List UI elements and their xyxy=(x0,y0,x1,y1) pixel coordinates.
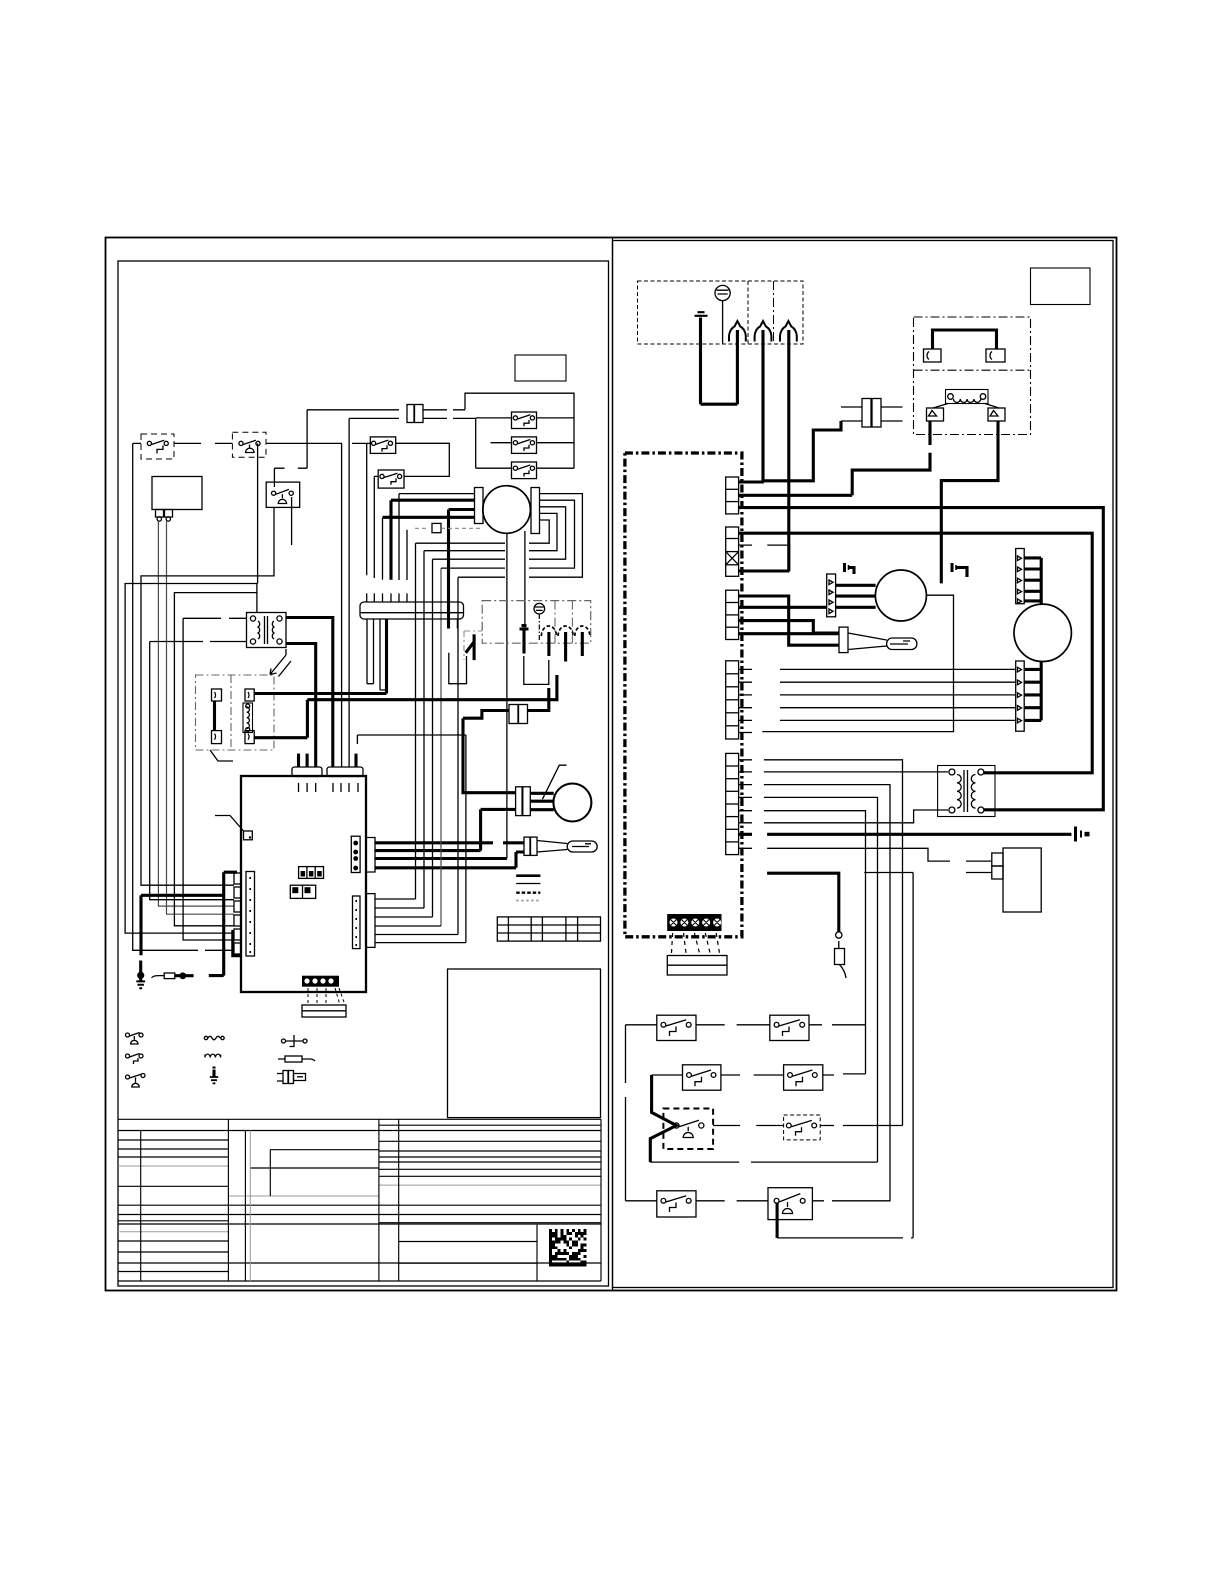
wire rail r3 xyxy=(141,507,274,885)
F right wires to board (bold) xyxy=(254,619,386,738)
chassis tap glyph xyxy=(1076,827,1090,842)
indicator lamp xyxy=(715,285,730,344)
wire rung L1 xyxy=(133,442,371,444)
T1 right wires to board (bold) xyxy=(286,618,333,768)
board top pin stubs xyxy=(299,754,357,767)
wire rail r1 xyxy=(125,584,257,934)
line type legend xyxy=(516,876,540,901)
limit switch S2 (dashed, bell) xyxy=(232,432,266,457)
chassis cap glyph 2 xyxy=(845,563,855,574)
limit switch row2 LS1 xyxy=(652,1065,721,1090)
plug terminals in F xyxy=(212,689,255,744)
table horizontal rules xyxy=(118,1119,601,1281)
left rail bottom section xyxy=(625,1025,627,1201)
heater coil w/ plugs xyxy=(927,390,1006,422)
control board U1 xyxy=(241,776,366,992)
datamatrix code xyxy=(549,1229,586,1266)
wire tb w545 xyxy=(739,545,790,571)
jumper wire in F (bold) xyxy=(213,701,216,731)
tab block TB2 w/ X xyxy=(726,527,739,576)
flame rollout RS2 (bell) xyxy=(768,1188,890,1220)
pressure switch row1 PS2 xyxy=(696,1015,866,1040)
U links under strip xyxy=(449,653,549,685)
ground feed wire (bold) xyxy=(141,872,241,975)
aux box (dash-dot) xyxy=(914,317,1031,435)
CN2 harness (bold) xyxy=(375,809,516,867)
valve feed bold run xyxy=(307,675,557,700)
row1-row2 right link xyxy=(865,1025,867,1074)
board bottom connector xyxy=(302,1005,346,1017)
board left tab T1..T6 xyxy=(234,873,241,954)
burner U link (bold) xyxy=(701,403,738,406)
board top connector bumps xyxy=(292,767,322,777)
rollout switch SB xyxy=(378,470,404,488)
small data table xyxy=(497,917,600,941)
door switch SC (bell) xyxy=(258,443,308,583)
legend symbol: switch w/bell 2 xyxy=(126,1074,146,1088)
heater plug leads (bold) xyxy=(852,421,998,583)
leader arrow to F xyxy=(270,649,291,677)
legend symbol: fuse xyxy=(278,1056,315,1062)
wire tb w571 xyxy=(739,569,790,572)
strip2 stubs (bold) xyxy=(1024,669,1041,720)
connector box F (dash-dot) xyxy=(196,675,275,750)
wire tb w508 xyxy=(739,508,1104,810)
chassis cap glyph 3 xyxy=(952,563,967,577)
nested wires to strip xyxy=(416,543,466,942)
strip lower wires xyxy=(357,619,466,744)
strip lower stubs xyxy=(449,619,458,629)
outer border frame xyxy=(106,238,1117,1291)
wire rail r8 xyxy=(183,618,246,940)
feed loop wire xyxy=(465,393,574,468)
inducer connector strip xyxy=(827,574,836,617)
tab block TB3 xyxy=(726,590,739,639)
blower return vertical (bold) xyxy=(1040,662,1043,721)
board right connector CN3 xyxy=(353,894,376,949)
wire tb w633 xyxy=(739,632,839,635)
inducer leads xyxy=(836,585,876,607)
board left pin strip xyxy=(246,872,255,957)
wire tb w608 xyxy=(739,606,827,609)
right inner border xyxy=(613,241,1114,1288)
run capacitor C1 xyxy=(516,765,592,821)
dip switch block xyxy=(290,885,315,898)
capacitor feed wires xyxy=(463,718,516,809)
blower motor M1 xyxy=(475,486,540,534)
relay coil K1 xyxy=(152,477,202,522)
tstat leads (dashed) xyxy=(672,933,720,953)
relay lead wires (gray pair) xyxy=(158,521,234,914)
wire SA to SB loop xyxy=(396,443,450,476)
tab block TB4 xyxy=(726,661,739,739)
capacitor tap square xyxy=(415,523,480,532)
blower connector strip 2 xyxy=(1016,661,1024,731)
aux limit (dashed bold) ALS xyxy=(663,1109,713,1150)
RS2 bottom return (bold+thin) xyxy=(776,1203,779,1238)
fuse F1 chain xyxy=(152,972,224,979)
legend symbol: resistor squiggle xyxy=(204,1036,224,1040)
blower feed vertical (bold) xyxy=(1040,558,1043,604)
notes box xyxy=(448,969,601,1118)
burner jets B xyxy=(729,321,797,571)
wires motor area to terminal strip xyxy=(367,443,407,602)
wire tb w483 xyxy=(739,480,764,483)
M1 lead wires left xyxy=(399,493,475,495)
TITLEBLOCK xyxy=(118,1119,601,1281)
auxiliary limit switch S5 xyxy=(476,462,574,479)
legend symbol: switch w/hook xyxy=(126,1054,144,1065)
wire rail r4 xyxy=(150,642,247,900)
line plug P3 xyxy=(764,399,903,481)
board bottom terminal block xyxy=(302,976,339,987)
gas valve box GV (dash-dot) xyxy=(482,601,591,644)
legend symbol: ground xyxy=(210,1067,218,1084)
flame sensor B1 xyxy=(503,837,597,855)
leader tail at F bottom xyxy=(210,750,233,761)
legend symbol: switch contact xyxy=(282,1035,308,1047)
RIGHTPANEL xyxy=(625,268,1103,1238)
lower harness wires xyxy=(375,899,466,943)
hot surface igniter xyxy=(839,627,917,653)
label box R (empty) xyxy=(1031,268,1091,305)
motor bottom drops xyxy=(507,531,525,859)
board bottom dashed leads xyxy=(308,988,345,1005)
tab block TB1 xyxy=(726,477,739,514)
jumper plugs top xyxy=(924,330,1006,362)
wire tb w596 xyxy=(739,596,839,645)
wires tb group4 (thin) xyxy=(739,669,752,732)
valve harness plug P2 xyxy=(463,688,549,724)
wires tb group5 (thin) xyxy=(739,760,752,849)
legend symbol: coil xyxy=(205,1054,221,1057)
panel divider xyxy=(612,238,614,1291)
ground G2 xyxy=(695,312,708,404)
board top inner pin ticks xyxy=(299,783,359,792)
flame rod (bold) xyxy=(520,626,529,654)
blower motor M3 xyxy=(1014,604,1071,661)
tab block TB5 xyxy=(726,753,739,854)
M1 lead loops right xyxy=(529,494,582,578)
auxiliary limit switch S4 xyxy=(491,437,575,454)
inducer motor M2 xyxy=(875,570,926,621)
rollout switch row4 RS1 xyxy=(626,1191,769,1217)
transformer T2 xyxy=(938,766,995,817)
wire drop from plug line xyxy=(307,410,349,767)
disconnect plug P1 xyxy=(307,405,476,423)
aux switch row3 (dashed) AS2 xyxy=(713,1115,902,1140)
relay feed wires xyxy=(767,848,992,872)
burner jets xyxy=(541,626,589,662)
pressure switch row1 PS1 xyxy=(626,1015,697,1040)
spark igniter arrow xyxy=(464,631,482,660)
wire rail r2 xyxy=(133,443,234,950)
gas valve regulator xyxy=(534,603,545,641)
flame sensor probe xyxy=(835,932,847,978)
limit relay box E xyxy=(992,848,1041,912)
seven segment display xyxy=(299,867,324,879)
legend symbol: plug xyxy=(277,1071,306,1084)
tstat terminal block (filled) xyxy=(667,914,721,931)
wire rail r7 xyxy=(174,593,257,926)
table light rules xyxy=(118,1131,601,1282)
legend symbol: switch w/bell xyxy=(126,1033,144,1045)
wire tb w620 xyxy=(739,621,839,633)
board corner component xyxy=(215,816,252,840)
T2 right leads (bold) xyxy=(984,773,997,810)
transformer T1 xyxy=(247,613,287,648)
row3 return wire xyxy=(650,1161,877,1163)
wire tb w533 xyxy=(739,533,1093,773)
LEFTPANEL xyxy=(125,355,600,1118)
coil in F xyxy=(243,703,253,733)
strip1 stubs (bold) xyxy=(1024,558,1041,601)
main control box (bold dash-dot) xyxy=(625,453,742,937)
field connector xyxy=(667,956,727,976)
limit switch row2 LS2 xyxy=(721,1065,866,1090)
wire tb w495 xyxy=(739,494,853,497)
terminal strip TS1 xyxy=(360,602,464,619)
auxiliary limit switch S3 xyxy=(476,412,574,429)
left inner border xyxy=(118,261,609,1286)
label box (empty callout) xyxy=(515,355,566,381)
ground symbol G1 xyxy=(136,961,145,989)
table vertical rules xyxy=(141,1119,601,1281)
board right connector CN2 xyxy=(351,836,375,872)
bold fork to ALS xyxy=(650,1075,676,1162)
row4 right link xyxy=(889,1200,891,1203)
wire 24v common (bold) xyxy=(739,833,1072,836)
blower connector strip 1 xyxy=(1016,549,1024,604)
burner assembly box (dashed) xyxy=(638,281,804,344)
flame sensor lead (bold) xyxy=(767,873,839,931)
rollout switch SA xyxy=(370,437,395,454)
pressure switch S1 (dashed) xyxy=(141,434,174,459)
